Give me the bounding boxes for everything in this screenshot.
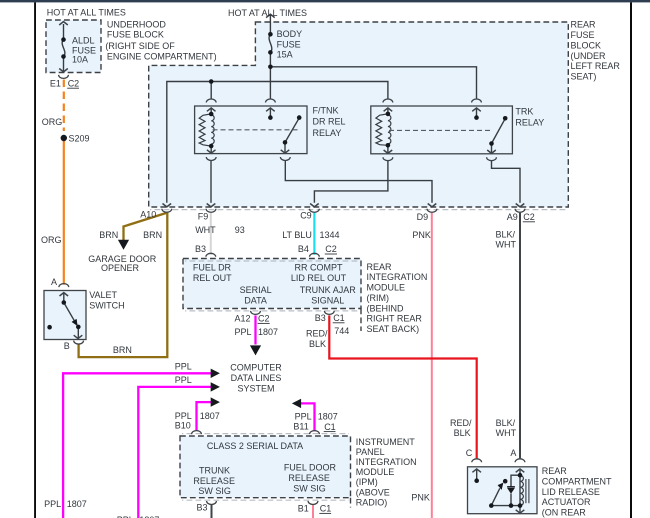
svg-text:REAR: REAR xyxy=(542,466,568,476)
svg-text:PNK: PNK xyxy=(411,493,430,503)
svg-text:93: 93 xyxy=(235,225,245,235)
svg-text:SEAT BACK): SEAT BACK) xyxy=(367,324,420,334)
svg-text:(RIM): (RIM) xyxy=(367,293,390,303)
svg-text:INTEGRATION: INTEGRATION xyxy=(356,457,417,467)
svg-text:INTEGRATION: INTEGRATION xyxy=(367,272,428,282)
svg-text:S209: S209 xyxy=(69,133,90,143)
svg-text:PPL: PPL xyxy=(44,499,61,509)
svg-text:E1: E1 xyxy=(50,78,61,88)
svg-text:MODULE: MODULE xyxy=(367,283,406,293)
svg-text:DATA LINES: DATA LINES xyxy=(231,373,282,383)
svg-text:B3: B3 xyxy=(315,313,326,323)
svg-text:B3: B3 xyxy=(195,244,206,254)
svg-text:BLK: BLK xyxy=(454,428,471,438)
svg-text:VALET: VALET xyxy=(89,290,117,300)
svg-text:RELEASE: RELEASE xyxy=(288,473,330,483)
svg-text:BLK: BLK xyxy=(309,339,326,349)
svg-text:BODY: BODY xyxy=(277,29,303,39)
svg-text:LT BLU: LT BLU xyxy=(282,230,312,240)
svg-text:RED/: RED/ xyxy=(306,329,328,339)
svg-text:C2: C2 xyxy=(325,244,337,254)
svg-text:SEAT): SEAT) xyxy=(571,72,597,82)
svg-text:BLK/: BLK/ xyxy=(496,418,516,428)
svg-text:1807: 1807 xyxy=(318,412,338,422)
svg-text:B10: B10 xyxy=(175,421,191,431)
svg-text:LID RELEASE: LID RELEASE xyxy=(542,487,600,497)
svg-text:RELAY: RELAY xyxy=(515,118,544,128)
svg-text:TRUNK AJAR: TRUNK AJAR xyxy=(300,285,357,295)
svg-text:A: A xyxy=(51,277,57,287)
svg-text:(IPM): (IPM) xyxy=(356,477,378,487)
svg-text:RED/: RED/ xyxy=(450,418,472,428)
svg-text:LID REL OUT: LID REL OUT xyxy=(291,273,347,283)
svg-text:ORG: ORG xyxy=(42,117,63,127)
svg-text:A10: A10 xyxy=(140,209,156,219)
svg-text:UNDERHOOD: UNDERHOOD xyxy=(107,19,167,29)
svg-text:SW SIG: SW SIG xyxy=(198,486,231,496)
svg-text:B: B xyxy=(64,341,70,351)
svg-text:A12: A12 xyxy=(235,313,251,323)
svg-text:ALDL: ALDL xyxy=(72,36,95,46)
svg-text:SIGNAL: SIGNAL xyxy=(311,295,344,305)
svg-text:FUEL DR: FUEL DR xyxy=(193,262,232,272)
svg-text:OPENER: OPENER xyxy=(101,263,140,273)
svg-text:PPL: PPL xyxy=(235,327,252,337)
svg-text:RR COMPT: RR COMPT xyxy=(295,262,343,272)
svg-text:RIGHT REAR: RIGHT REAR xyxy=(367,314,423,324)
svg-text:REL OUT: REL OUT xyxy=(193,273,232,283)
svg-text:RADIO): RADIO) xyxy=(356,497,388,507)
svg-text:C2: C2 xyxy=(258,314,270,324)
svg-text:1807: 1807 xyxy=(258,327,278,337)
svg-text:RELAY: RELAY xyxy=(313,128,342,138)
svg-text:C2: C2 xyxy=(68,79,80,89)
svg-text:DATA: DATA xyxy=(244,295,267,305)
svg-text:PNK: PNK xyxy=(412,230,431,240)
svg-text:WHT: WHT xyxy=(195,225,216,235)
svg-text:C1: C1 xyxy=(333,313,345,323)
svg-text:BLK/: BLK/ xyxy=(496,230,516,240)
svg-text:FUSE BLOCK: FUSE BLOCK xyxy=(107,30,164,40)
svg-text:COMPARTMENT: COMPARTMENT xyxy=(542,477,612,487)
svg-text:B4: B4 xyxy=(298,244,309,254)
svg-text:TRUNK: TRUNK xyxy=(199,466,230,476)
svg-text:ACTUATOR: ACTUATOR xyxy=(542,497,591,507)
svg-text:15A: 15A xyxy=(277,50,293,60)
svg-text:B1: B1 xyxy=(298,503,309,513)
svg-text:REAR: REAR xyxy=(571,20,597,30)
svg-text:SERIAL: SERIAL xyxy=(240,285,272,295)
svg-text:D9: D9 xyxy=(417,212,429,222)
svg-text:WHT: WHT xyxy=(496,428,517,438)
svg-text:INSTRUMENT: INSTRUMENT xyxy=(356,437,415,447)
svg-text:BRN: BRN xyxy=(143,230,162,240)
svg-text:PANEL: PANEL xyxy=(356,447,385,457)
svg-text:(BEHIND: (BEHIND xyxy=(367,303,405,313)
svg-text:BLOCK: BLOCK xyxy=(571,40,602,50)
svg-text:PPL: PPL xyxy=(175,375,192,385)
svg-text:SW SIG: SW SIG xyxy=(293,483,326,493)
svg-text:HOT AT ALL TIMES: HOT AT ALL TIMES xyxy=(47,7,126,17)
svg-text:WHT: WHT xyxy=(496,240,517,250)
svg-text:C: C xyxy=(466,448,473,458)
svg-text:ORG: ORG xyxy=(41,235,62,245)
svg-text:FUSE: FUSE xyxy=(277,40,301,50)
svg-text:FUEL DOOR: FUEL DOOR xyxy=(284,463,337,473)
svg-text:HOT AT ALL TIMES: HOT AT ALL TIMES xyxy=(228,8,307,18)
svg-text:LEFT REAR: LEFT REAR xyxy=(571,61,621,71)
svg-text:C1: C1 xyxy=(320,504,332,514)
svg-text:F9: F9 xyxy=(198,212,209,222)
svg-text:PPL: PPL xyxy=(295,412,312,422)
svg-text:F/TNK: F/TNK xyxy=(313,105,339,115)
svg-text:DR REL: DR REL xyxy=(313,117,346,127)
svg-text:SWITCH: SWITCH xyxy=(89,301,125,311)
svg-text:COMPUTER: COMPUTER xyxy=(230,363,282,373)
svg-text:SYSTEM: SYSTEM xyxy=(237,383,274,393)
svg-text:A9: A9 xyxy=(507,212,518,222)
svg-text:PPL: PPL xyxy=(175,361,192,371)
svg-text:C9: C9 xyxy=(300,211,312,221)
svg-text:1344: 1344 xyxy=(320,230,340,240)
svg-text:RELEASE: RELEASE xyxy=(193,476,235,486)
svg-text:BRN: BRN xyxy=(113,345,132,355)
svg-text:(ABOVE: (ABOVE xyxy=(356,487,390,497)
svg-text:(ON REAR: (ON REAR xyxy=(542,508,587,518)
svg-text:MODULE: MODULE xyxy=(356,467,395,477)
svg-text:REAR: REAR xyxy=(367,262,393,272)
svg-text:PPL: PPL xyxy=(175,411,192,421)
svg-text:FUSE: FUSE xyxy=(571,30,595,40)
svg-text:1807: 1807 xyxy=(200,411,220,421)
svg-text:B3: B3 xyxy=(197,503,208,513)
svg-text:B11: B11 xyxy=(293,422,308,432)
svg-text:ENGINE COMPARTMENT): ENGINE COMPARTMENT) xyxy=(107,51,217,61)
svg-text:1807: 1807 xyxy=(67,499,87,509)
svg-text:(UNDER: (UNDER xyxy=(571,51,606,61)
svg-text:C2: C2 xyxy=(523,212,535,222)
svg-text:(RIGHT SIDE OF: (RIGHT SIDE OF xyxy=(105,41,175,51)
svg-text:BRN: BRN xyxy=(99,230,118,240)
svg-text:10A: 10A xyxy=(72,55,88,65)
svg-text:A: A xyxy=(510,448,516,458)
svg-text:TRK: TRK xyxy=(515,107,533,117)
svg-text:CLASS 2 SERIAL DATA: CLASS 2 SERIAL DATA xyxy=(207,441,303,451)
svg-text:C1: C1 xyxy=(324,422,336,432)
svg-text:744: 744 xyxy=(334,326,349,336)
